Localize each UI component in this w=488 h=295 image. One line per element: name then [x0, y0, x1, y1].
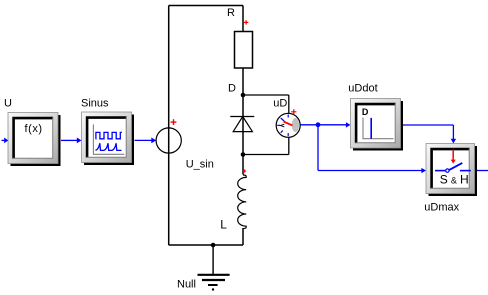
svg-text:f(x): f(x): [25, 123, 43, 135]
voltage source U_sin: [156, 128, 181, 153]
plus mark at R: [244, 20, 248, 24]
wire right branch top (to resistor): [242, 6, 244, 32]
inductor L: [238, 175, 247, 229]
wire U to Sinus: [61, 138, 82, 144]
wire inductor bottom: [242, 228, 244, 245]
diode D: [230, 117, 254, 132]
node junction top of diode: [241, 93, 246, 98]
wire voltmeter to node: [300, 124, 318, 126]
svg-text:U_sin: U_sin: [186, 159, 214, 171]
wire resistor to inductor (through diode): [242, 68, 244, 175]
block Sinus: [82, 112, 135, 165]
svg-text:R: R: [227, 7, 235, 19]
voltmeter uD: [276, 113, 300, 137]
node junction bottom of diode: [241, 152, 246, 157]
plus mark at source: [171, 119, 177, 125]
plus mark at L: [243, 169, 246, 172]
wire S&H output: [477, 170, 488, 172]
svg-text:Sinus: Sinus: [81, 98, 109, 110]
wire top horizontal: [169, 5, 243, 7]
wire left vertical: [168, 6, 170, 246]
wire Sinus to source: [135, 138, 157, 144]
wire bottom horizontal: [169, 244, 243, 246]
svg-text:uDmax: uDmax: [424, 202, 459, 214]
wire voltmeter bottom: [288, 137, 290, 155]
block U (f(x)): [8, 113, 61, 167]
svg-text:U: U: [4, 98, 12, 110]
svg-text:uDdot: uDdot: [348, 83, 377, 95]
block S&H (uDmax): [426, 144, 477, 197]
wire node down to S&H: [318, 125, 426, 173]
block uDdot: [351, 99, 404, 151]
wire uDdot to S&H top: [403, 125, 456, 144]
plus mark at uD: [291, 109, 296, 114]
svg-text:D: D: [362, 107, 369, 117]
wire input arrow to U: [2, 138, 9, 144]
node junction at ground: [211, 243, 216, 248]
svg-text:uD: uD: [273, 97, 287, 109]
svg-text:S&H: S&H: [440, 173, 469, 187]
resistor R: [235, 32, 253, 69]
wire voltmeter top: [243, 94, 289, 96]
svg-text:Null: Null: [177, 279, 196, 291]
wire node to uDdot: [318, 122, 351, 127]
svg-text:L: L: [220, 217, 227, 231]
node blue junction: [316, 122, 321, 127]
ground Null: [198, 245, 230, 291]
svg-text:D: D: [228, 83, 236, 95]
